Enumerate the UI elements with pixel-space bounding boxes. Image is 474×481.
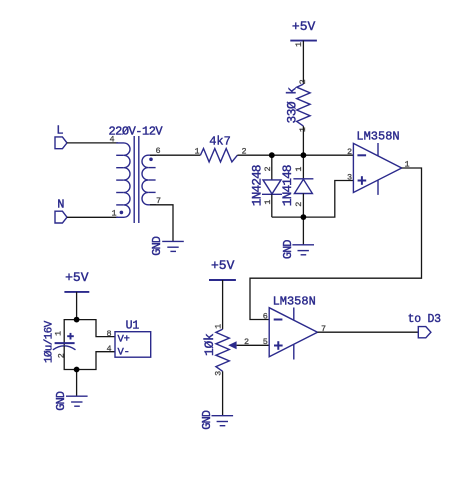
svg-text:6: 6 <box>263 311 268 321</box>
svg-text:8: 8 <box>107 329 112 339</box>
svg-text:GND: GND <box>54 391 68 410</box>
svg-text:LM358N: LM358N <box>356 129 399 143</box>
secondary phase dot <box>149 158 153 162</box>
resistor R2 4k7 <box>195 135 247 162</box>
wire +5V to R 330k <box>302 41 304 85</box>
power stub V- <box>293 345 295 360</box>
junction node R330k/4k7 <box>269 152 275 158</box>
svg-text:+5V: +5V <box>65 270 89 285</box>
core <box>133 136 135 223</box>
svg-text:GND: GND <box>281 240 295 259</box>
junction node cap top <box>74 317 80 323</box>
op-amp U2B LM358N <box>263 294 326 359</box>
wire wiper to op-amp pin 5 <box>237 344 270 346</box>
svg-text:1Øu/16V: 1Øu/16V <box>44 320 56 363</box>
svg-text:1: 1 <box>294 167 304 172</box>
wire +5V to node <box>76 292 78 320</box>
svg-text:U1: U1 <box>126 319 140 332</box>
potentiometer R3 10k <box>202 324 249 376</box>
wire L to transformer pin 4 <box>67 142 118 144</box>
svg-text:1: 1 <box>53 331 63 336</box>
junction node cap bottom <box>74 367 80 373</box>
svg-text:to D3: to D3 <box>408 313 442 326</box>
wire node to GND <box>302 217 304 245</box>
wire pot bottom to GND <box>222 371 224 415</box>
power stub V- <box>377 180 379 195</box>
svg-text:33Ø k: 33Ø k <box>284 87 299 124</box>
wire R 330k to node <box>302 126 304 155</box>
svg-text:+5V: +5V <box>292 19 316 34</box>
svg-text:GND: GND <box>150 236 164 255</box>
wire capacitor to bottom node <box>64 346 76 370</box>
ground under potentiometer <box>200 410 233 429</box>
wire node to diode D2 top <box>302 155 304 179</box>
svg-text:1Øk: 1Øk <box>202 333 217 356</box>
IC U1 supply box <box>107 319 151 358</box>
svg-text:3: 3 <box>347 172 352 182</box>
svg-text:2: 2 <box>294 202 304 207</box>
power +5V (capacitor branch) <box>64 270 89 292</box>
resistor R1 330 k <box>284 79 310 132</box>
connector N <box>55 198 67 224</box>
wire N to transformer pin 1 <box>67 216 118 218</box>
wire node to diode D1 top <box>271 155 273 180</box>
svg-text:2: 2 <box>298 79 308 84</box>
wire trafo pin6 to R 4k7 <box>150 154 200 156</box>
wire diode bottoms to op-amp pin 3 riser <box>272 181 354 218</box>
svg-text:5: 5 <box>263 337 268 347</box>
wire trafo pin 7 to GND <box>150 205 173 242</box>
diode D2 1N4148 <box>280 165 314 207</box>
primary phase dot <box>120 211 124 215</box>
wire op-amp2 output to connector <box>318 331 419 333</box>
ground under transformer <box>150 236 184 255</box>
wire D2 bottom <box>302 194 304 218</box>
wiper arrow <box>228 341 236 349</box>
wire bottom node to GND <box>76 370 78 397</box>
svg-text:L: L <box>56 124 63 138</box>
svg-text:V-: V- <box>118 347 130 359</box>
diode D1 1N4248 <box>249 165 282 206</box>
svg-text:22ØV-12V: 22ØV-12V <box>108 124 163 138</box>
svg-text:V+: V+ <box>118 334 130 346</box>
svg-text:2: 2 <box>56 353 66 358</box>
power +5V (top) <box>290 19 317 47</box>
svg-text:LM358N: LM358N <box>273 294 316 308</box>
op-amp U2A LM358N <box>347 129 410 195</box>
connector to D3 <box>408 313 442 338</box>
junction node diode top <box>301 152 307 158</box>
svg-text:1: 1 <box>195 147 200 157</box>
wire U1 pin 4 to bottom node <box>77 352 115 370</box>
wire node to capacitor <box>64 320 76 346</box>
svg-text:1: 1 <box>213 324 223 329</box>
transformer TR1 220V-12V <box>108 124 163 223</box>
svg-text:4: 4 <box>110 135 115 145</box>
power stub V+ <box>377 143 379 156</box>
svg-text:2: 2 <box>347 147 352 157</box>
svg-text:1: 1 <box>112 209 117 219</box>
power stub V+ <box>293 308 295 321</box>
svg-text:4k7: 4k7 <box>209 135 231 149</box>
wire +5V to pot <box>222 280 224 329</box>
junction node diode bottom <box>301 214 307 220</box>
wire D1 bottom <box>271 194 273 217</box>
wire node to U1 pin 8 <box>77 320 115 337</box>
capacitor C1 10u/16V <box>44 320 76 363</box>
connector L <box>55 124 67 149</box>
wire op-amp1 output feedback to op-amp2 pin 6 <box>250 168 422 320</box>
svg-text:2: 2 <box>263 166 273 171</box>
svg-text:4: 4 <box>107 344 112 354</box>
svg-text:GND: GND <box>200 410 214 429</box>
primary winding <box>116 143 130 217</box>
wire R 4k7 to op-amp pin 2 <box>237 154 353 156</box>
svg-text:1: 1 <box>294 42 304 47</box>
secondary winding <box>142 155 156 205</box>
ground under diodes <box>281 240 314 259</box>
svg-text:N: N <box>57 198 64 212</box>
ground under capacitor <box>54 391 88 410</box>
svg-text:3: 3 <box>213 371 223 376</box>
svg-text:1N4148: 1N4148 <box>280 165 295 206</box>
svg-text:+5V: +5V <box>211 258 235 273</box>
power +5V (potentiometer branch) <box>209 258 236 280</box>
